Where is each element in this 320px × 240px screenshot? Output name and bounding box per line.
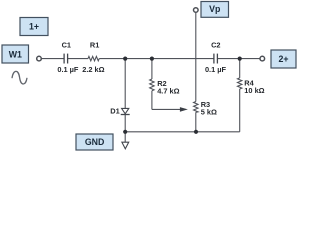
svg-text:1+: 1+ [29,22,39,32]
svg-text:4.7 kΩ: 4.7 kΩ [157,87,179,96]
svg-text:5 kΩ: 5 kΩ [201,108,217,117]
svg-text:C2: C2 [211,41,220,50]
svg-text:Vp: Vp [209,4,221,14]
svg-text:C1: C1 [62,40,71,49]
svg-text:W1: W1 [9,50,22,60]
svg-text:10 kΩ: 10 kΩ [244,86,264,95]
svg-text:0.1 µF: 0.1 µF [205,65,227,74]
svg-text:R1: R1 [90,40,99,49]
svg-text:D1: D1 [110,106,119,115]
svg-text:0.1 µF: 0.1 µF [57,65,79,74]
svg-text:2+: 2+ [278,54,288,64]
svg-text:GND: GND [85,137,105,147]
svg-text:2.2 kΩ: 2.2 kΩ [82,65,104,74]
